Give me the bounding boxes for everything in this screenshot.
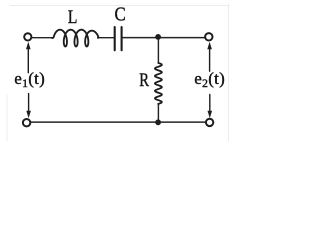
wire: bottom rail xyxy=(30,121,205,123)
svg-text:L: L xyxy=(68,7,78,28)
terminal: bottom-right xyxy=(206,119,213,126)
wire: top-left terminal to inductor xyxy=(32,37,53,39)
capacitor C left plate xyxy=(114,27,116,50)
arrow shaft: left up xyxy=(27,48,29,73)
wire: capacitor to top-right terminal xyxy=(123,37,205,39)
node: bottom junction dot xyxy=(155,119,161,125)
arrow shaft: left down xyxy=(28,94,30,113)
scan border frame (faint) xyxy=(7,4,229,141)
terminal: bottom-left xyxy=(23,119,30,126)
inductor L coil xyxy=(52,30,98,47)
arrow shaft: right down xyxy=(209,95,211,113)
wire: resistor bottom lead xyxy=(157,104,159,123)
arrowhead: right down xyxy=(208,111,213,119)
svg-text:R: R xyxy=(139,70,149,91)
arrowhead: right up xyxy=(207,42,212,50)
wire: inductor to capacitor xyxy=(98,37,114,39)
svg-text:C: C xyxy=(115,4,126,26)
wire: resistor top lead xyxy=(157,37,159,63)
node: top junction dot xyxy=(155,34,161,40)
arrow shaft: right up xyxy=(209,48,211,71)
resistor R squiggle xyxy=(155,63,162,104)
svg-text:e1(t): e1(t) xyxy=(14,69,45,90)
svg-text:e2(t): e2(t) xyxy=(194,69,225,90)
terminal: top-left xyxy=(24,33,31,40)
arrowhead: left up xyxy=(26,42,31,50)
capacitor C right plate xyxy=(121,27,123,50)
arrowhead: left down xyxy=(26,111,31,119)
terminal: top-right xyxy=(205,33,212,40)
